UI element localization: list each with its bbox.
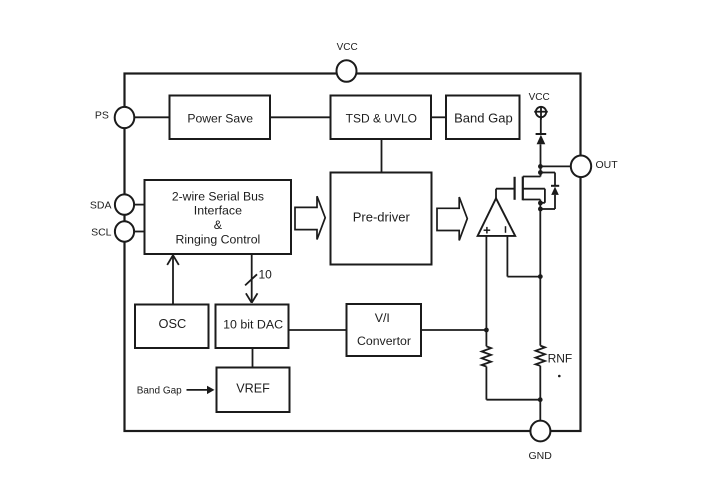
svg-text:Pre-driver: Pre-driver: [353, 210, 411, 225]
svg-text:&: &: [214, 218, 223, 232]
svg-text:OUT: OUT: [596, 159, 619, 171]
svg-text:VCC: VCC: [337, 42, 358, 53]
svg-text:10: 10: [259, 268, 273, 282]
svg-text:2-wire Serial Bus: 2-wire Serial Bus: [172, 189, 264, 203]
svg-text:Interface: Interface: [194, 204, 242, 218]
svg-text:Band Gap: Band Gap: [137, 386, 182, 397]
svg-text:Convertor: Convertor: [357, 334, 411, 348]
svg-text:RNF: RNF: [548, 351, 573, 365]
svg-text:TSD & UVLO: TSD & UVLO: [346, 111, 417, 125]
svg-text:SCL: SCL: [91, 226, 112, 238]
svg-text:Power Save: Power Save: [187, 111, 253, 125]
svg-text:GND: GND: [529, 450, 553, 462]
svg-text:OSC: OSC: [159, 316, 187, 331]
svg-text:PS: PS: [95, 110, 109, 122]
svg-text:SDA: SDA: [90, 200, 112, 212]
svg-text:V/I: V/I: [375, 311, 390, 325]
svg-text:Ringing Control: Ringing Control: [176, 232, 261, 246]
svg-text:Band Gap: Band Gap: [454, 110, 513, 125]
svg-text:10 bit DAC: 10 bit DAC: [223, 318, 283, 332]
svg-text:VREF: VREF: [236, 382, 270, 396]
svg-text:VCC: VCC: [529, 92, 550, 103]
